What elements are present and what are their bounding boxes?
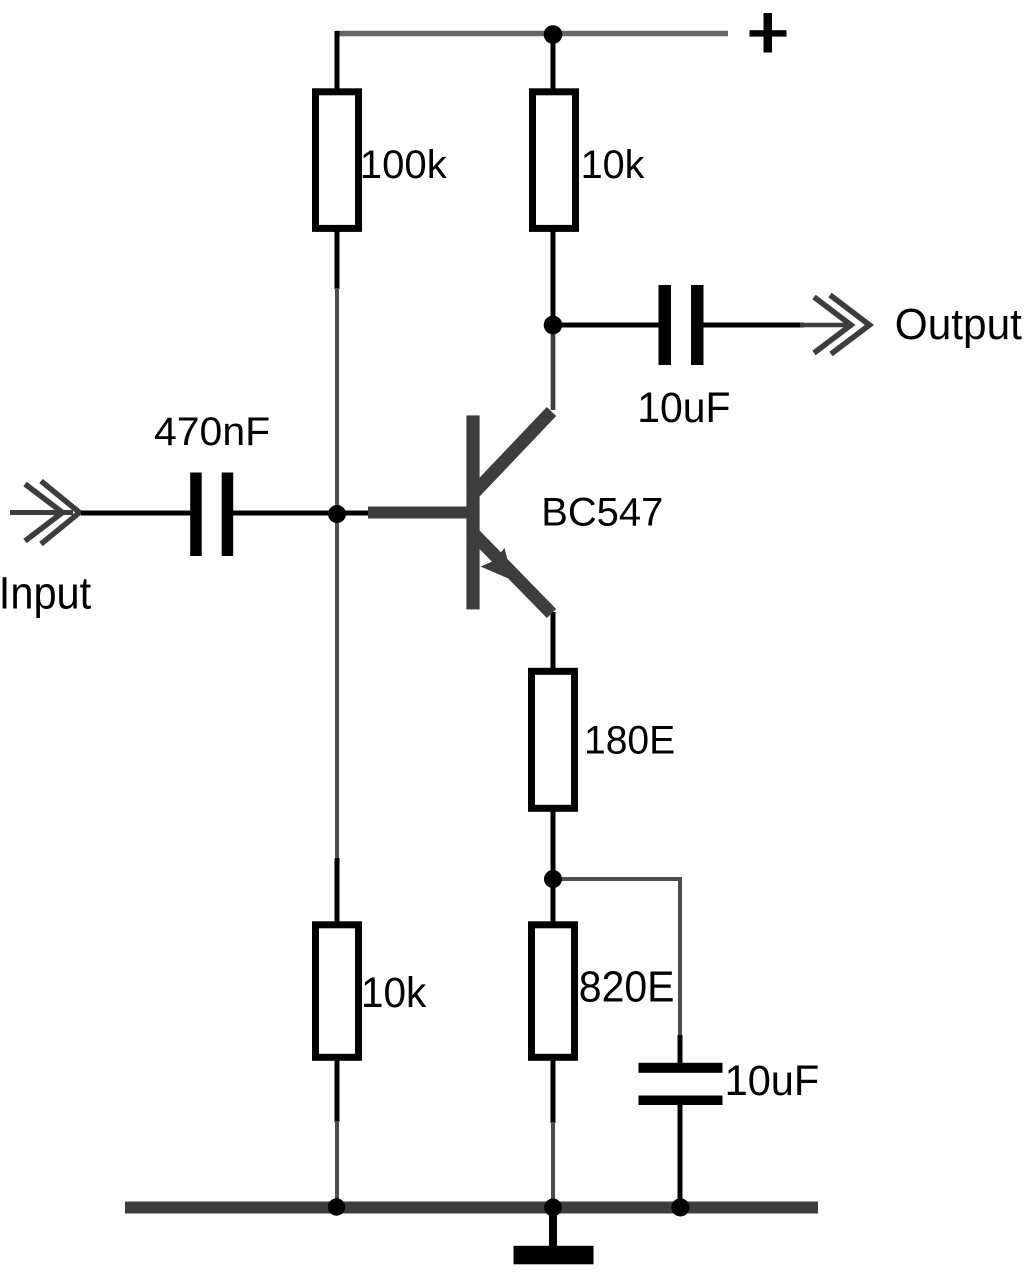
svg-text:100k: 100k	[360, 143, 448, 187]
svg-text:Output: Output	[895, 300, 1022, 349]
svg-text:BC547: BC547	[541, 491, 663, 535]
svg-text:470nF: 470nF	[154, 410, 270, 454]
svg-text:10uF: 10uF	[637, 384, 730, 432]
svg-text:10uF: 10uF	[725, 1057, 820, 1105]
svg-text:820E: 820E	[579, 963, 675, 1012]
svg-text:180E: 180E	[584, 719, 675, 763]
svg-text:10k: 10k	[581, 143, 646, 187]
svg-text:10k: 10k	[361, 969, 427, 1017]
svg-text:Input: Input	[0, 568, 92, 619]
